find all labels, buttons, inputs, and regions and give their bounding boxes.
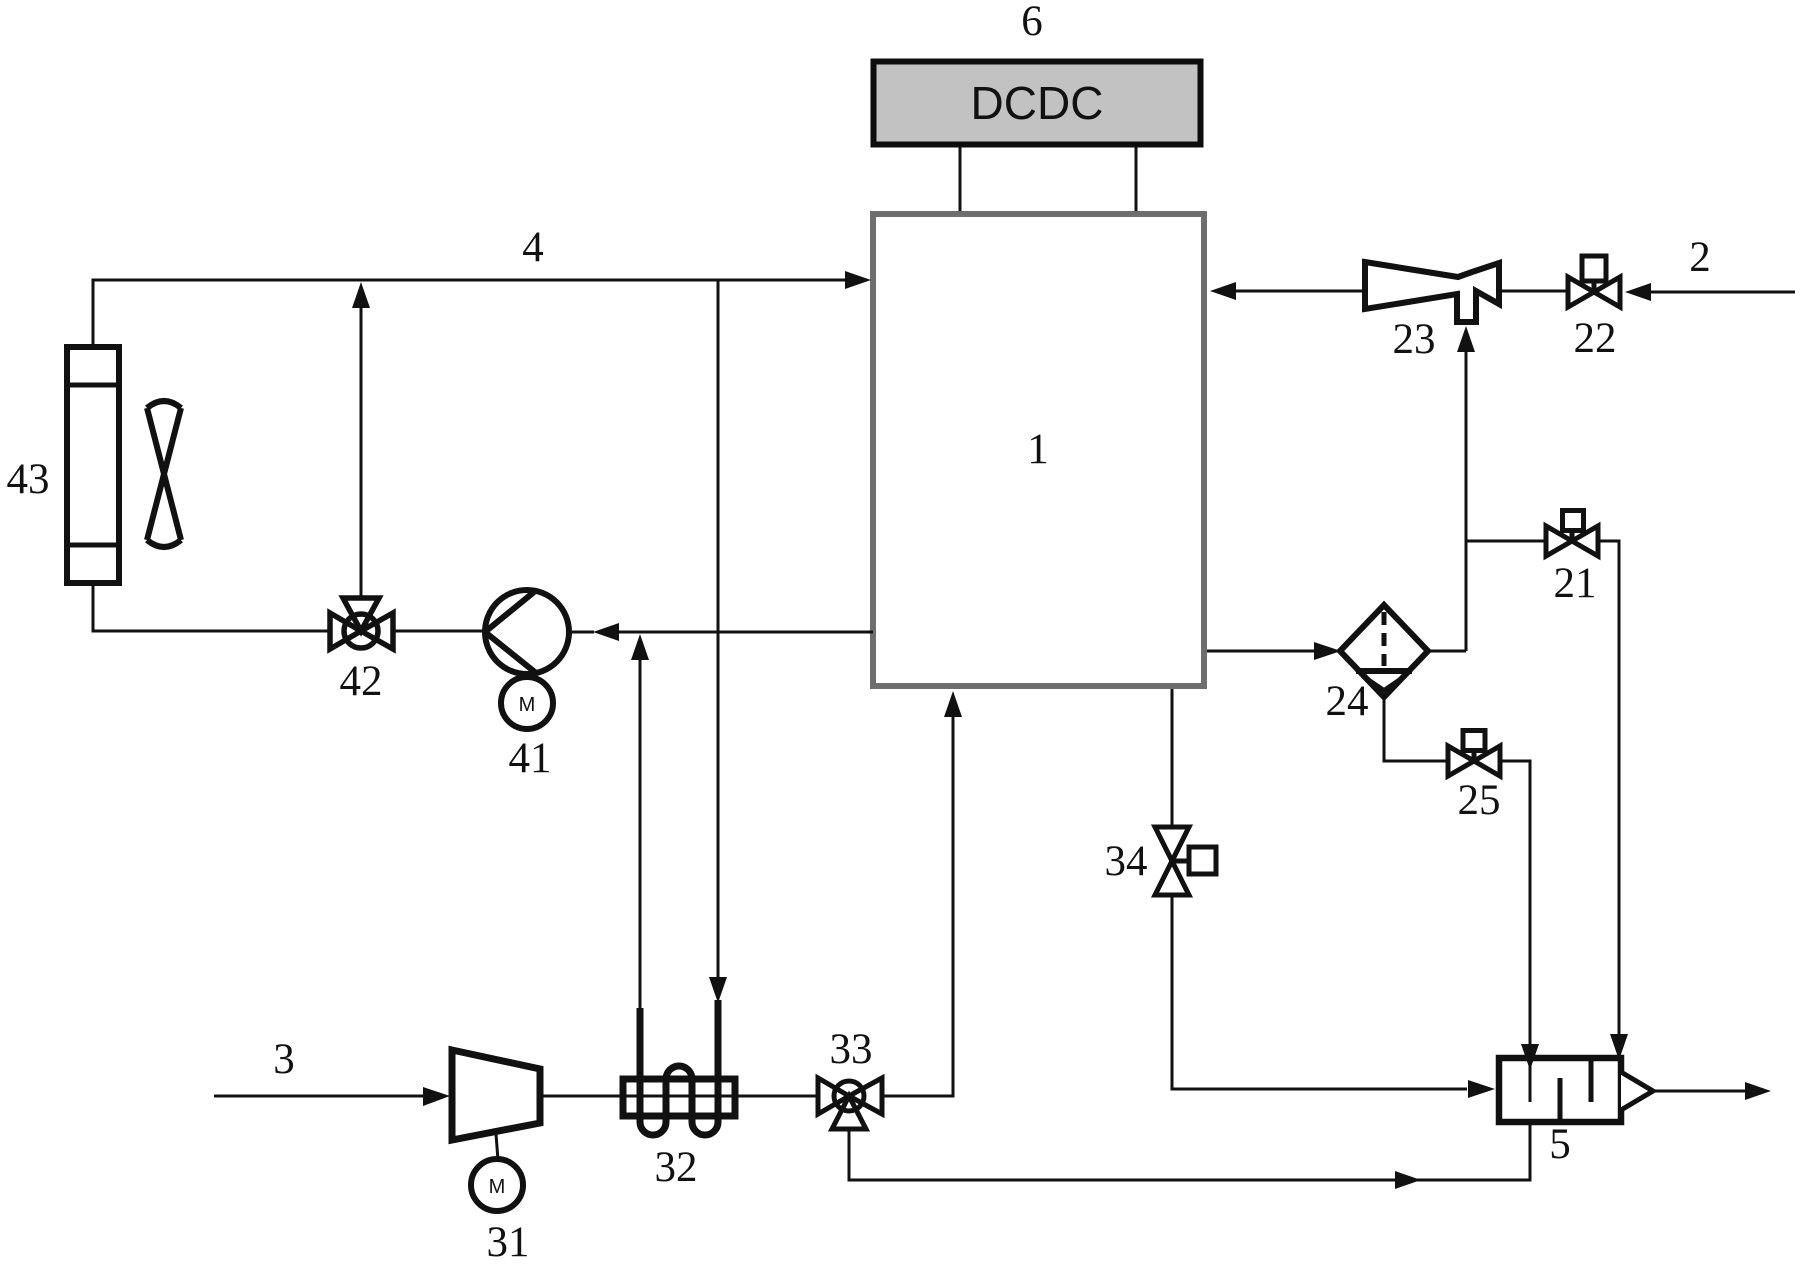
fan of radiator: [147, 401, 181, 547]
wire separator bottom to valve 25: [1384, 697, 1448, 761]
wire stack to separator 24: [1207, 642, 1341, 660]
wire 4 (coolant supply to stack): [93, 224, 871, 344]
solenoid valve 21: [1546, 511, 1598, 557]
svg-text:25: 25: [1458, 777, 1501, 824]
radiator 43: [7, 347, 120, 583]
wire separator to ejector suction (up arrow): [1457, 326, 1475, 651]
ejector 23: [1365, 262, 1499, 363]
svg-text:1: 1: [1027, 426, 1049, 473]
svg-text:34: 34: [1105, 838, 1148, 885]
DCDC converter U6: [874, 62, 1201, 145]
wire valve 33 to stack bottom (up arrow): [882, 691, 962, 1096]
svg-text:41: 41: [509, 735, 552, 782]
bypass wire valve 33 to muffler: [849, 1122, 1530, 1189]
wire branch to valve 21: [1466, 540, 1546, 543]
svg-text:6: 6: [1021, 0, 1043, 45]
wire valve 42 branch up to wire 4: [352, 282, 370, 572]
solenoid valve 22: [1568, 256, 1620, 307]
svg-text:24: 24: [1326, 678, 1369, 725]
svg-text:4: 4: [522, 224, 544, 271]
wire 2 (hydrogen supply): [1625, 234, 1795, 301]
muffler 5: [1499, 1058, 1653, 1168]
wire valve 34 to muffler inlet: [1172, 895, 1495, 1098]
wire separator to suction line: [1428, 650, 1466, 653]
svg-text:5: 5: [1549, 1121, 1571, 1168]
svg-text:21: 21: [1554, 560, 1597, 607]
svg-text:33: 33: [830, 1026, 873, 1073]
wire pump to stack (flow arrow pointing left into pump): [569, 623, 873, 641]
svg-text:2: 2: [1689, 234, 1711, 281]
wire valve 42 to pump 41: [393, 630, 485, 633]
wire 3 (air intake): [214, 1036, 450, 1106]
svg-text:M: M: [519, 694, 536, 716]
compressor 31: [452, 1050, 540, 1160]
wire compressor to valve 33 through intercooler: [540, 1095, 818, 1098]
svg-text:M: M: [489, 1176, 506, 1198]
svg-text:3: 3: [273, 1036, 295, 1083]
compressor motor M 31: [471, 1159, 530, 1265]
separator 24: [1326, 605, 1429, 725]
pump 41: [485, 590, 569, 674]
intercooler 32: [623, 1000, 735, 1135]
svg-text:23: 23: [1393, 316, 1436, 363]
solenoid valve 25: [1448, 731, 1500, 777]
wire valve 22 to ejector: [1499, 290, 1568, 293]
wire branch from wire 4 down to intercooler (down arrow): [709, 280, 727, 1003]
muffler outlet wire: [1653, 1082, 1771, 1100]
three-way valve 33: [818, 1078, 882, 1129]
wire valve 25 to muffler (down arrow into muffler): [1500, 761, 1539, 1102]
wire radiator bottom to valve 42: [93, 586, 330, 631]
wire DCDC left lead: [959, 147, 962, 211]
svg-text:32: 32: [655, 1144, 698, 1191]
three-way valve 42: [330, 572, 393, 649]
wire ejector to stack (cathode return): [1210, 282, 1365, 300]
fuel cell stack 1: [873, 214, 1204, 686]
wire stack bottom to valve 34: [1171, 689, 1174, 829]
svg-text:31: 31: [487, 1219, 530, 1265]
svg-text:43: 43: [7, 456, 50, 503]
pump motor M: [501, 677, 553, 782]
svg-text:42: 42: [340, 658, 383, 705]
wire valve 21 to muffler (down arrow): [1598, 541, 1628, 1060]
wire intercooler coolant return (up arrow into pump line): [631, 634, 649, 1008]
svg-text:22: 22: [1574, 315, 1617, 362]
wire DCDC right lead: [1135, 147, 1138, 211]
svg-text:DCDC: DCDC: [971, 77, 1104, 129]
shutoff valve 34: [1155, 827, 1216, 895]
